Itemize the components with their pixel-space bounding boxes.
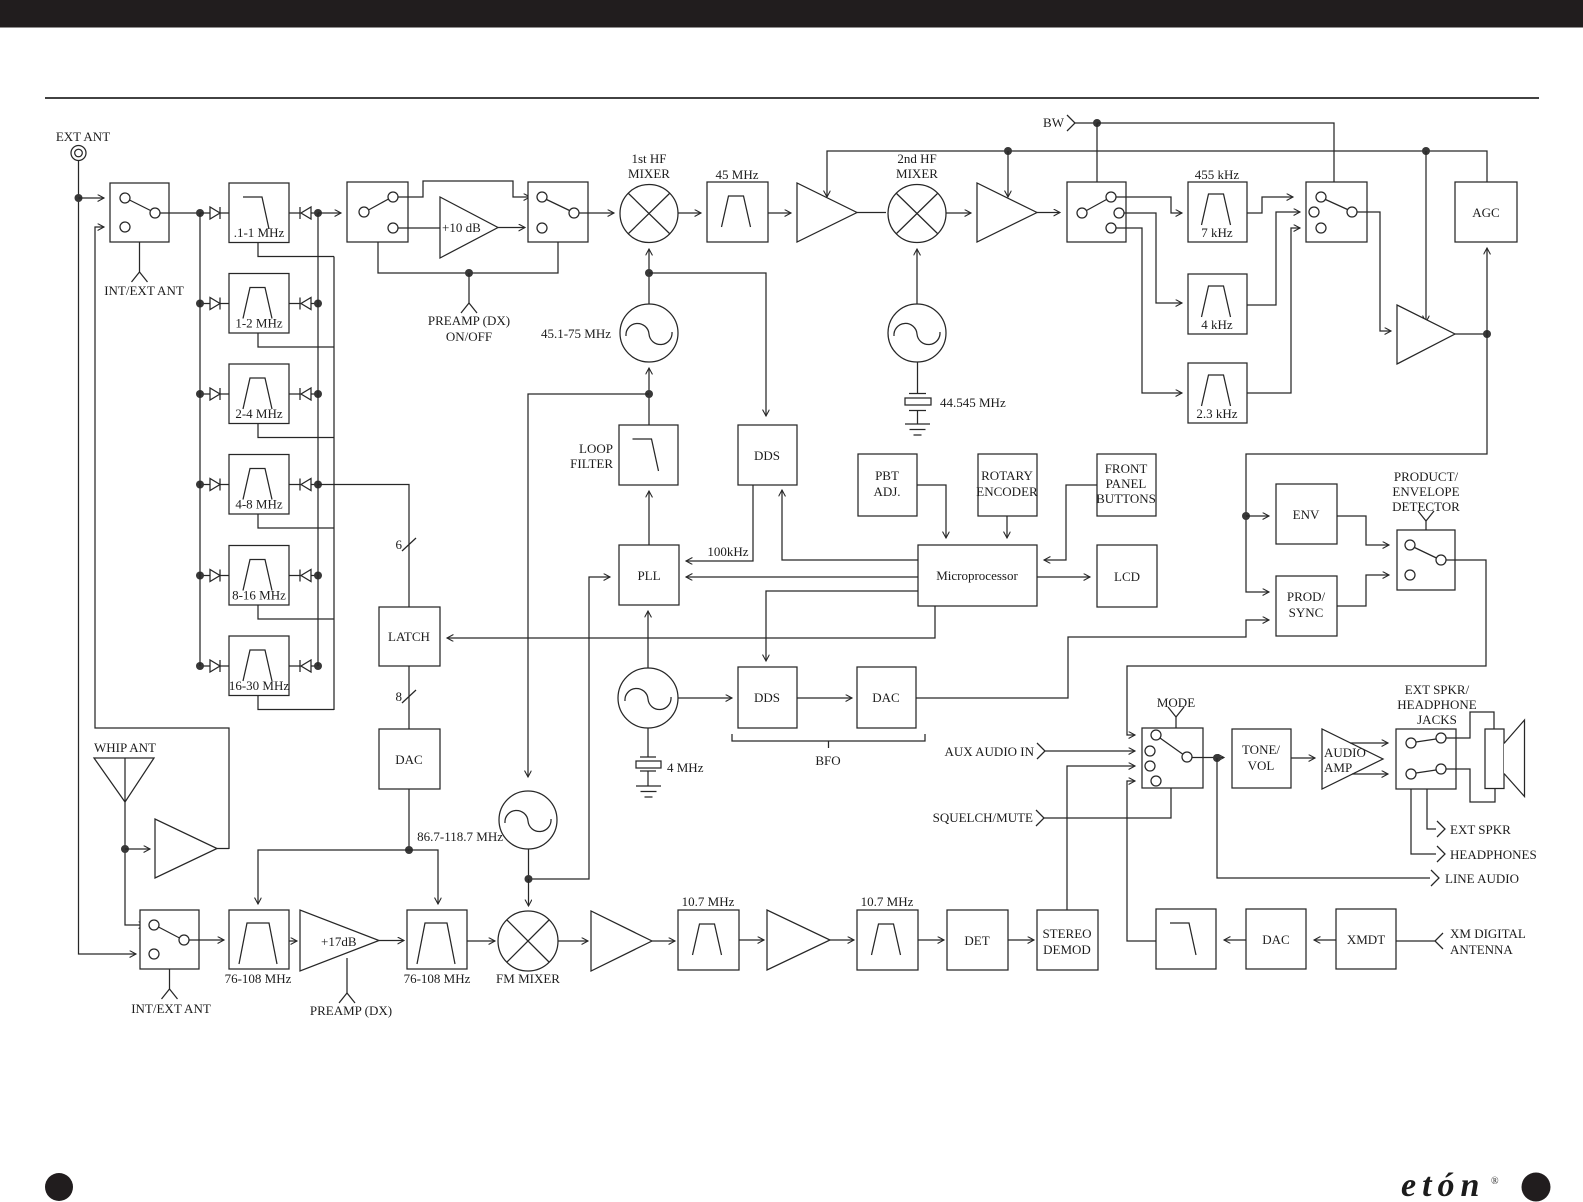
wire BW switch to 2.3 kHz filter [1116, 228, 1182, 393]
EXT ANT jack connector [71, 146, 86, 161]
wire XMDT to DAC [1314, 939, 1336, 941]
svg-text:EXT SPKR: EXT SPKR [1450, 822, 1511, 837]
wire S1 lower input from whip amp loop [95, 227, 229, 849]
node AGC amp C [1422, 147, 1430, 155]
DAC tuning box [379, 729, 440, 789]
FM INT/EXT pointer [169, 969, 171, 989]
node right bus row3 [314, 390, 322, 398]
wire latch to DAC [408, 666, 410, 729]
wire audio amp to jacks bottom [1352, 773, 1388, 775]
wire 4 kHz to switch D [1247, 212, 1300, 305]
node right bus row2 [314, 300, 322, 308]
switch SW-G speaker jacks [1396, 729, 1456, 789]
wire switch B to 1st mixer [579, 212, 614, 214]
amplifier FM-1 [591, 911, 652, 971]
band filter 2-4 MHz [229, 364, 289, 424]
wire mode out [1192, 757, 1224, 759]
wire IF to AGC [1486, 248, 1488, 334]
switch SW-B preamp out [528, 182, 588, 242]
wire left bus [199, 213, 201, 666]
svg-text:MIXER: MIXER [896, 166, 938, 181]
svg-text:45.1-75 MHz: 45.1-75 MHz [541, 326, 611, 341]
Microprocessor box [918, 545, 1037, 606]
svg-text:8: 8 [396, 689, 403, 704]
wire micro to BFO DDS [766, 591, 918, 661]
node VCO control [645, 390, 653, 398]
svg-text:BUTTONS: BUTTONS [1096, 491, 1156, 506]
AUX AUDIO IN connector [1037, 743, 1045, 759]
wire tuning to FM filter 1 [258, 850, 409, 904]
svg-text:PLL: PLL [637, 568, 660, 583]
svg-text:+17dB: +17dB [321, 934, 357, 949]
switch SW-C bandwidth [1067, 182, 1126, 242]
wire EXT ANT to switch S1 [79, 197, 105, 199]
wire switch A to amp [398, 227, 440, 229]
switch S1 INT/EXT ANT (HF) [110, 183, 169, 242]
wire PROD to det switch [1337, 575, 1389, 606]
wire AGC feedback [827, 151, 1487, 197]
filter 2.3 kHz [1188, 363, 1247, 423]
node right bus row1 [314, 209, 322, 217]
wire PBT to micro [917, 485, 946, 538]
filter 7 kHz [1188, 182, 1247, 242]
svg-text:®: ® [1491, 1176, 1499, 1187]
switch SW-H FM INT/EXT [140, 910, 199, 969]
diode D4a (row 4-8 MHz) [200, 484, 210, 486]
wire headphones output [1411, 789, 1436, 854]
wire micro to PLL [686, 576, 918, 578]
svg-text:DETECTOR: DETECTOR [1392, 499, 1460, 514]
wire amp to 10.7 filter [652, 940, 675, 942]
svg-text:EXT ANT: EXT ANT [56, 129, 110, 144]
svg-text:45 MHz: 45 MHz [716, 167, 759, 182]
PLL box [619, 545, 679, 605]
svg-text:8-16 MHz: 8-16 MHz [232, 588, 286, 603]
svg-text:XMDT: XMDT [1347, 932, 1385, 947]
wire whip amp output corner [217, 848, 229, 850]
node right bus row6 [314, 662, 322, 670]
svg-text:ENVELOPE: ENVELOPE [1392, 484, 1459, 499]
svg-text:DDS: DDS [754, 690, 780, 705]
svg-text:XM DIGITAL: XM DIGITAL [1450, 926, 1526, 941]
svg-text:DAC: DAC [1262, 932, 1289, 947]
SQUELCH/MUTE connector [1036, 810, 1044, 826]
wire to ENV [1246, 515, 1269, 517]
node EXT ANT junction [75, 194, 83, 202]
ENV box [1276, 484, 1337, 544]
wire detector audio to mode switch [1127, 560, 1486, 735]
svg-text:DAC: DAC [395, 752, 422, 767]
wire jacks to speaker top [1446, 712, 1494, 738]
svg-text:BFO: BFO [815, 753, 840, 768]
wire tone/vol to audio amp [1291, 757, 1315, 759]
LATCH box [379, 607, 440, 666]
wire BW switch to 7 kHz filter [1116, 197, 1182, 213]
wire filter to FM preamp [289, 940, 297, 942]
svg-text:1st HF: 1st HF [631, 151, 666, 166]
node IF out [1483, 330, 1491, 338]
svg-text:TONE/: TONE/ [1242, 742, 1280, 757]
band filter 8-16 MHz [229, 546, 289, 606]
wire tuning to FM filter 2 [409, 850, 438, 904]
ground below 4MHz crystal [636, 771, 661, 797]
wire buttons to micro [1044, 485, 1097, 560]
svg-text:LATCH: LATCH [388, 629, 430, 644]
wire FM VCO feedback to PLL [529, 577, 611, 879]
wire IF to detectors [1246, 334, 1487, 592]
node right bus row5 [314, 572, 322, 580]
diode D2b (row 1-2 MHz) [289, 303, 300, 305]
mixer FM [498, 911, 558, 971]
wire VCO control to FM VCO [528, 394, 649, 777]
wire DDS to DAC [797, 697, 852, 699]
svg-text:DEMOD: DEMOD [1043, 942, 1091, 957]
DAC BFO box [857, 667, 916, 728]
filter 76-108 MHz out [407, 910, 467, 969]
wire filter select bus [333, 257, 335, 711]
wire DDS data from micro [782, 490, 918, 560]
FRONT PANEL BUTTONS box [1097, 454, 1156, 516]
node BW [1093, 119, 1101, 127]
DAC XM box [1246, 909, 1306, 969]
diode D3a (row 2-4 MHz) [200, 393, 210, 395]
svg-text:7 kHz: 7 kHz [1201, 225, 1233, 240]
svg-text:AMP: AMP [1324, 760, 1352, 775]
wire squelch to mode switch [1044, 788, 1171, 818]
node detector in [1242, 512, 1250, 520]
wire amp to 2nd mixer [857, 212, 886, 214]
detector pointer [1418, 511, 1434, 521]
wire BW to switches [1075, 122, 1097, 124]
footer dot left [45, 1173, 73, 1201]
svg-text:MIXER: MIXER [628, 166, 670, 181]
wire 4MHz ref to PLL [647, 611, 649, 668]
svg-text:44.545 MHz: 44.545 MHz [940, 395, 1006, 410]
node AGC amp B [1004, 147, 1012, 155]
filter XM lowpass [1156, 909, 1216, 969]
crystal 4 MHz [640, 757, 656, 771]
wire AGC to amp C [1425, 151, 1427, 322]
node left bus row4 [196, 481, 204, 489]
svg-text:ENCODER: ENCODER [976, 484, 1038, 499]
svg-text:STEREO: STEREO [1042, 926, 1091, 941]
XMDT box [1336, 909, 1396, 969]
wire 2.3 kHz to switch D [1247, 228, 1300, 393]
svg-text:4 MHz: 4 MHz [667, 760, 704, 775]
band filter 1-2 MHz [229, 274, 289, 334]
wire ENV to det switch [1337, 516, 1389, 545]
wire VCO1 to mixer M1 [648, 249, 650, 304]
svg-text:SQUELCH/MUTE: SQUELCH/MUTE [933, 810, 1033, 825]
wire FM audio to mode switch [1067, 766, 1135, 910]
svg-text:PROD/: PROD/ [1287, 589, 1326, 604]
wire DAC to tracking filters [408, 789, 410, 850]
FM preamp pointer [346, 958, 348, 993]
diode D1b (row .1-1 MHz) [289, 212, 300, 214]
node audio out [1213, 754, 1221, 762]
svg-text:+10 dB: +10 dB [442, 220, 481, 235]
wire encoder to micro [1006, 516, 1008, 538]
wire filter .1-1 MHz select line [258, 243, 334, 257]
wire osc to mixer M2 [916, 249, 918, 304]
svg-text:Microprocessor: Microprocessor [936, 568, 1018, 583]
wire S1 output to left bus [160, 212, 200, 214]
svg-text:WHIP ANT: WHIP ANT [94, 740, 156, 755]
wire filter 4-8 MHz select line [258, 514, 334, 528]
svg-text:PREAMP (DX): PREAMP (DX) [310, 1003, 392, 1018]
svg-text:ROTARY: ROTARY [981, 468, 1033, 483]
node left bus row2 [196, 300, 204, 308]
crystal 44.545 MHz [909, 394, 926, 411]
svg-text:6: 6 [396, 537, 403, 552]
wire band data to latch [318, 485, 409, 608]
svg-text:SYNC: SYNC [1289, 605, 1324, 620]
wire amp to switch B [498, 227, 525, 229]
band filter 4-8 MHz [229, 455, 289, 515]
svg-text:76-108 MHz: 76-108 MHz [225, 971, 292, 986]
wire switch D to IF amp C [1357, 212, 1391, 331]
wire right bus [317, 213, 319, 666]
diode D3b (row 2-4 MHz) [289, 393, 300, 395]
svg-text:VOL: VOL [1248, 758, 1275, 773]
node left bus row3 [196, 390, 204, 398]
svg-text:1-2 MHz: 1-2 MHz [235, 316, 283, 331]
LINE AUDIO connector [1431, 870, 1439, 886]
PBT ADJ box [858, 454, 917, 516]
wire preamp to filter 2 [379, 940, 404, 942]
HEADPHONES connector [1437, 846, 1445, 862]
svg-text:MODE: MODE [1157, 695, 1195, 710]
wire DDS 100kHz to PLL [686, 485, 753, 561]
svg-text:HEADPHONE: HEADPHONE [1397, 697, 1477, 712]
svg-text:455 kHz: 455 kHz [1195, 167, 1240, 182]
svg-text:FM MIXER: FM MIXER [496, 971, 560, 986]
svg-text:PBT: PBT [875, 468, 899, 483]
diode D5b (row 8-16 MHz) [289, 575, 300, 577]
bus width marker 6 [402, 538, 416, 551]
svg-text:BW: BW [1043, 115, 1065, 130]
diode D6a (row 16-30 MHz) [200, 665, 210, 667]
svg-text:ANTENNA: ANTENNA [1450, 942, 1513, 957]
wire AGC to amp B [1007, 151, 1009, 197]
oscillator 44.545 MHz [888, 304, 946, 362]
wire PLL to loop filter [648, 491, 650, 545]
switch SW-E detector select [1397, 530, 1455, 590]
wire preamp bypass top [398, 181, 530, 197]
diode D1a (row .1-1 MHz) [200, 212, 210, 214]
diode D4b (row 4-8 MHz) [289, 484, 300, 486]
wire jacks to speaker bottom [1446, 769, 1495, 802]
wire line audio output [1217, 758, 1430, 878]
svg-text:FRONT: FRONT [1105, 461, 1148, 476]
node left bus row5 [196, 572, 204, 580]
wire FM VCO out [528, 849, 530, 879]
svg-text:DET: DET [964, 933, 989, 948]
header bar [0, 0, 1583, 28]
TONE/VOL box [1232, 729, 1291, 788]
svg-text:4 kHz: 4 kHz [1201, 317, 1233, 332]
wire osc to crystal [917, 362, 919, 393]
LOOP FILTER box [619, 425, 678, 485]
wire LO1 to DDS [649, 273, 766, 416]
diode D2a (row 1-2 MHz) [200, 303, 210, 305]
BW input connector [1067, 115, 1075, 131]
svg-text:.1-1 MHz: .1-1 MHz [234, 225, 285, 240]
svg-text:10.7 MHz: 10.7 MHz [861, 894, 914, 909]
svg-text:100kHz: 100kHz [707, 544, 748, 559]
DDS BFO box [738, 667, 797, 728]
switch SW-F mode select [1142, 728, 1203, 788]
speaker [1485, 729, 1504, 789]
node left bus row6 [196, 662, 204, 670]
svg-text:JACKS: JACKS [1417, 712, 1457, 727]
svg-text:PREAMP (DX): PREAMP (DX) [428, 313, 510, 328]
wire audio amp to jacks top [1350, 742, 1388, 744]
DET box [947, 910, 1008, 970]
wire 4MHz to BFO DDS [678, 697, 732, 699]
node whip [121, 845, 129, 853]
svg-text:AGC: AGC [1472, 205, 1499, 220]
amplifier +10 dB [440, 197, 498, 258]
svg-text:PRODUCT/: PRODUCT/ [1394, 469, 1459, 484]
node left bus row1 [196, 209, 204, 217]
wire preamp on/off control [378, 242, 558, 273]
amplifier IF-A [797, 183, 857, 242]
svg-text:INT/EXT ANT: INT/EXT ANT [104, 283, 184, 298]
wire XM antenna [1396, 940, 1435, 942]
wire BFO to product detector [916, 620, 1269, 698]
wire filter to amp FM-2 [739, 939, 764, 941]
svg-text:86.7-118.7 MHz: 86.7-118.7 MHz [417, 829, 503, 844]
svg-text:LINE AUDIO: LINE AUDIO [1445, 871, 1519, 886]
whip antenna [94, 758, 154, 802]
amplifier FM-2 [767, 910, 830, 970]
wire FM mixer to amp [558, 940, 588, 942]
wire filter 16-30 MHz select line [258, 696, 334, 710]
amplifier IF-B [977, 183, 1037, 242]
wire amp to 10.7 filter b [830, 939, 854, 941]
filter 10.7 MHz b [857, 910, 918, 970]
amplifier AUDIO AMP [1322, 729, 1383, 789]
node tuning voltage [405, 846, 413, 854]
node LO1 [645, 269, 653, 277]
wire XM DAC to filter [1224, 939, 1246, 941]
wire osc to 4MHz crystal [647, 728, 649, 757]
wire loop filter to VCO1 [648, 368, 650, 425]
wire amp B to BW switch [1037, 212, 1060, 214]
svg-text:ON/OFF: ON/OFF [446, 329, 492, 344]
svg-text:PANEL: PANEL [1106, 476, 1147, 491]
svg-text:HEADPHONES: HEADPHONES [1450, 847, 1537, 862]
diode D5a (row 8-16 MHz) [200, 575, 210, 577]
svg-text:76-108 MHz: 76-108 MHz [404, 971, 471, 986]
band filter .1-1 MHz [229, 183, 289, 243]
wire 45MHz filter to IF amp [768, 212, 791, 214]
bus width marker 8 [402, 690, 416, 703]
XM antenna connector [1435, 933, 1443, 949]
wire 7 kHz to switch D [1247, 197, 1293, 213]
svg-text:ENV: ENV [1293, 507, 1320, 522]
oscillator 45.1-75 MHz VCO [620, 304, 678, 362]
wire BW to switch D [1097, 123, 1334, 182]
AGC box [1455, 182, 1517, 242]
node right bus row4 [314, 481, 322, 489]
wire BW switch to 4 kHz filter [1124, 213, 1182, 303]
mixer M1 1st HF [620, 185, 678, 243]
svg-text:ADJ.: ADJ. [873, 484, 900, 499]
wire amp C output [1455, 333, 1487, 335]
svg-text:2-4 MHz: 2-4 MHz [235, 406, 283, 421]
svg-text:10.7 MHz: 10.7 MHz [682, 894, 735, 909]
amplifier whip [155, 819, 217, 878]
filter 4 kHz [1188, 274, 1247, 334]
switch SW-D bandwidth out [1306, 182, 1367, 242]
oscillator 4 MHz ref [618, 668, 678, 728]
wire ext spkr output [1427, 789, 1436, 829]
mode pointer [1168, 707, 1184, 717]
wire filter 8-16 MHz select line [258, 605, 334, 619]
PREAMP (DX) ON/OFF pointer [468, 273, 470, 303]
svg-text:2nd HF: 2nd HF [897, 151, 936, 166]
footer dot right [1522, 1173, 1551, 1202]
svg-text:INT/EXT ANT: INT/EXT ANT [131, 1001, 211, 1016]
svg-text:etón: etón [1401, 1167, 1485, 1202]
node preamp control [465, 269, 473, 277]
INT/EXT ANT pointer [139, 242, 141, 272]
wire LO to FM mixer [528, 879, 530, 906]
svg-text:DAC: DAC [872, 690, 899, 705]
wire filter 1-2 MHz select line [258, 333, 334, 347]
node FM LO [525, 875, 533, 883]
wire whip down [125, 802, 145, 925]
mixer M2 2nd HF [888, 185, 946, 243]
LCD box [1097, 545, 1157, 607]
wire filter to FM mixer [467, 940, 495, 942]
header rule [45, 97, 1539, 99]
svg-text:FILTER: FILTER [570, 456, 613, 471]
wire DET to stereo demod [1008, 939, 1034, 941]
wire EXT ANT down to FM switch [79, 161, 137, 955]
filter 45 MHz [707, 182, 768, 242]
wire mixer to IF amp B [946, 212, 971, 214]
wire micro to LCD [1037, 576, 1090, 578]
diode D6b (row 16-30 MHz) [289, 665, 300, 667]
PROD/SYNC box [1276, 576, 1337, 636]
wire mixer to 45 MHz filter [678, 212, 701, 214]
wire micro to latch [447, 606, 935, 638]
svg-text:AUX AUDIO IN: AUX AUDIO IN [944, 744, 1034, 759]
svg-text:LCD: LCD [1114, 569, 1140, 584]
svg-text:4-8 MHz: 4-8 MHz [235, 497, 283, 512]
DDS reference box [738, 425, 797, 485]
band filter 16-30 MHz [229, 636, 289, 696]
wire bus to preamp switch [318, 212, 341, 214]
svg-text:EXT SPKR/: EXT SPKR/ [1405, 682, 1470, 697]
svg-text:AUDIO: AUDIO [1324, 745, 1366, 760]
filter 10.7 MHz a [678, 910, 739, 970]
STEREO DEMOD box [1037, 910, 1098, 970]
wire whip to amp [125, 848, 150, 850]
svg-text:LOOP: LOOP [579, 441, 613, 456]
svg-text:16-30 MHz: 16-30 MHz [229, 678, 290, 693]
switch SW-A preamp in [347, 182, 408, 242]
svg-text:DDS: DDS [754, 448, 780, 463]
wire FM switch to filter [189, 939, 224, 941]
wire filter 2-4 MHz select line [258, 424, 334, 438]
amplifier IF-C [1397, 305, 1455, 364]
wire XM audio to mode switch [1127, 781, 1156, 941]
EXT SPKR connector [1437, 821, 1445, 837]
